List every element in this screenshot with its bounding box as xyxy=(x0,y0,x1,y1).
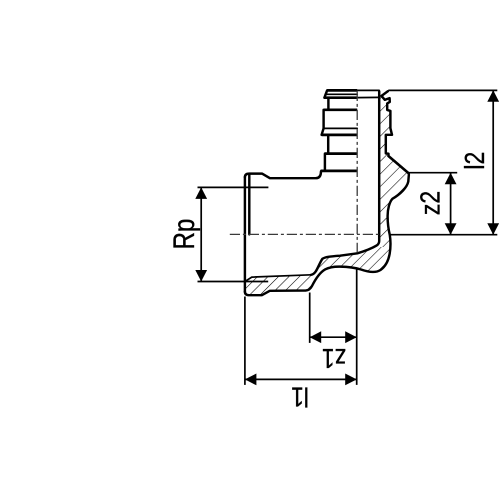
thread chamfer ring xyxy=(248,174,250,235)
socket end face xyxy=(244,177,246,292)
z2 top extension line xyxy=(409,172,457,174)
barb left profile xyxy=(322,90,329,170)
thread root line (section, bottom) xyxy=(245,275,311,282)
l2 top extension line xyxy=(388,89,497,91)
svg-text:l2: l2 xyxy=(460,152,491,170)
socket top outline xyxy=(245,171,321,178)
barb ring lines xyxy=(327,89,357,92)
bend inner bore curve xyxy=(311,91,379,274)
svg-text:Rp: Rp xyxy=(168,219,201,250)
z2 arrow down xyxy=(445,223,457,235)
z1 dimension line xyxy=(310,336,357,338)
Rp dimension line xyxy=(200,187,202,281)
vertical centerline xyxy=(356,91,358,253)
z1 left extension line xyxy=(309,293,311,343)
z2 dimension line xyxy=(450,173,452,235)
l1 arrow left xyxy=(245,374,257,386)
horizontal centerline xyxy=(230,233,379,235)
far-side top edges seen through bore xyxy=(357,89,379,91)
l2 arrow down xyxy=(487,223,499,235)
sectioned wall (hatched) xyxy=(245,91,409,295)
svg-text:l1: l1 xyxy=(291,381,309,412)
l1 left extension line xyxy=(244,297,246,385)
thread crest line bottom (also Rp extension) xyxy=(198,281,269,283)
thread crest line top (also Rp extension) xyxy=(198,186,269,188)
svg-text:z1: z1 xyxy=(322,342,346,373)
l2/z2 bottom extension line xyxy=(390,234,498,236)
z1/l1 right extension line xyxy=(356,268,358,385)
z1 arrow left xyxy=(310,331,322,343)
socket bottom outline xyxy=(245,156,409,295)
svg-text:z2: z2 xyxy=(416,191,447,215)
z1 arrow right xyxy=(345,331,357,343)
l1 dimension line xyxy=(245,378,357,380)
Rp arrow down xyxy=(195,270,207,282)
z2 arrow up xyxy=(445,173,457,185)
l2 arrow up xyxy=(487,90,499,102)
barb section outer profile xyxy=(382,91,409,173)
l1 arrow right xyxy=(345,374,357,386)
l2 dimension line xyxy=(492,90,494,234)
Rp arrow up xyxy=(195,187,207,199)
